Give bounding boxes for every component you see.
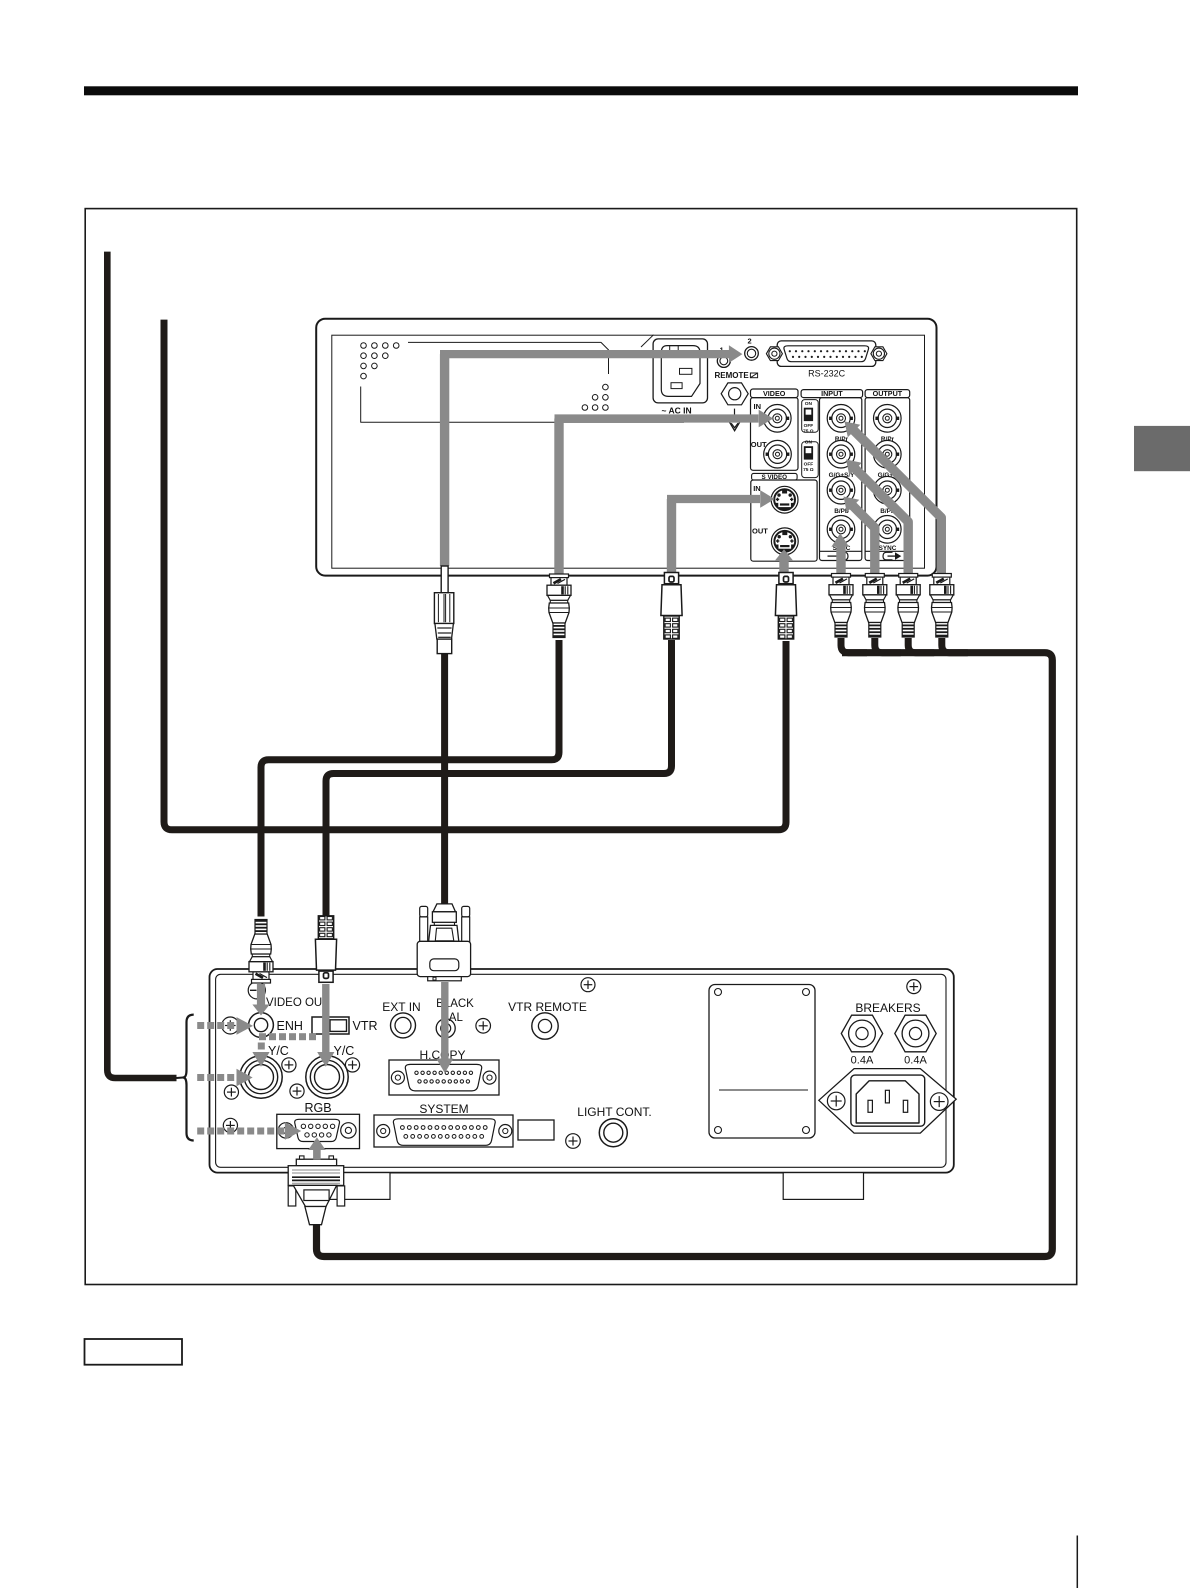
breaker 0.4A right — [895, 1015, 936, 1066]
gray cable to INPUT SYNC — [831, 533, 849, 574]
BNC OUTPUT G/G+S — [874, 440, 902, 479]
connector REMOTE 2 — [745, 337, 759, 361]
S VIDEO plug to S VIDEO OUT — [775, 573, 796, 640]
section VIDEO — [751, 389, 799, 470]
phone plug remote cable — [434, 566, 453, 654]
wire: component plug tails — [841, 638, 968, 653]
gray cable from S VIDEO OUT — [775, 549, 793, 574]
svg-text:OUT: OUT — [752, 527, 768, 536]
svg-text:VIDEO: VIDEO — [763, 389, 786, 398]
gray cable to INPUT G/G+S/Y — [846, 460, 908, 575]
BNC Y/C right — [306, 1044, 355, 1098]
gray cable to INPUT B/Pb — [844, 497, 875, 575]
gray arrow to RGB — [308, 1138, 325, 1160]
svg-text:S VIDEO: S VIDEO — [762, 474, 788, 481]
output icon — [865, 551, 910, 560]
D-sub plug to RGB — [288, 1156, 345, 1225]
monitor rear panel — [316, 319, 936, 576]
ventilation holes middle — [582, 384, 608, 410]
svg-text:0.4A: 0.4A — [851, 1055, 874, 1067]
foot right — [783, 1173, 863, 1200]
ground terminal — [721, 383, 748, 431]
section INPUT — [801, 389, 863, 561]
BNC plug to VIDEO IN — [547, 574, 571, 638]
S VIDEO IN connector — [753, 484, 798, 513]
svg-text:IN: IN — [754, 402, 762, 411]
breaker 0.4A left — [841, 1015, 882, 1066]
svg-text:ON: ON — [805, 401, 813, 407]
BNC Y/C left — [240, 1044, 289, 1098]
blank plate — [518, 1120, 554, 1140]
svg-text:75 Ω: 75 Ω — [803, 467, 814, 473]
dashed arrow ENH to Y/C — [252, 1043, 269, 1067]
blank cover panel — [709, 985, 815, 1139]
S VIDEO OUT connector — [752, 527, 798, 555]
BNC VIDEO IN — [754, 402, 792, 432]
section OUTPUT — [865, 389, 910, 561]
gray cable to S VIDEO IN — [667, 490, 775, 574]
gray cable to VIDEO IN — [555, 410, 774, 575]
gray cable to INPUT R/Pr — [845, 421, 942, 574]
D-sub plug to H.COPY — [417, 904, 470, 981]
input icon — [820, 551, 862, 560]
wire: RGB multicore cable — [317, 653, 1053, 1257]
BNC OUTPUT B/Pb — [874, 476, 902, 515]
svg-text:ENH: ENH — [277, 1019, 303, 1033]
BNC OUTPUT SYNC — [874, 516, 902, 553]
svg-text:RS-232C: RS-232C — [808, 369, 846, 379]
svg-text:VIDEO OUT: VIDEO OUT — [266, 997, 329, 1009]
connector H.COPY — [389, 1048, 499, 1095]
svg-text:~ AC IN: ~ AC IN — [662, 406, 692, 416]
connector RGB — [277, 1101, 360, 1149]
BNC BLACK BAL — [436, 998, 474, 1038]
svg-text:BREAKERS: BREAKERS — [855, 1001, 920, 1015]
gray arrow to H.COPY — [436, 982, 453, 1073]
connector REMOTE 1 — [717, 346, 730, 368]
label BREAKERS — [855, 1001, 920, 1015]
svg-text:SYSTEM: SYSTEM — [419, 1102, 468, 1116]
diagram frame — [85, 209, 1076, 1285]
svg-text:75 Ω: 75 Ω — [803, 429, 814, 435]
svg-text:LIGHT CONT.: LIGHT CONT. — [577, 1105, 651, 1119]
svg-text:2: 2 — [748, 337, 752, 346]
wire: S VIDEO OUT to other equipment — [164, 320, 786, 830]
svg-text:VTR: VTR — [353, 1019, 378, 1033]
label REMOTE — [715, 371, 758, 380]
CCU rear panel — [210, 969, 954, 1173]
dashed arrow to RGB — [197, 1122, 301, 1140]
connector RS-232C — [766, 341, 887, 379]
gray arrow to RGB overlay — [308, 1138, 325, 1160]
gray arrow to ENH — [252, 984, 269, 1016]
svg-text:OUTPUT: OUTPUT — [873, 389, 903, 398]
title rule — [84, 86, 1078, 95]
BNC INPUT R/Pr — [827, 405, 855, 444]
ventilation holes left — [361, 343, 399, 379]
AC inlet AC IN — [653, 339, 707, 403]
svg-text:INPUT: INPUT — [821, 389, 843, 398]
switch 75 ohm A — [803, 401, 814, 434]
BNC EXT IN — [382, 1000, 420, 1038]
S VIDEO plug to S VIDEO IN — [661, 573, 682, 640]
foot left — [310, 1173, 390, 1200]
chapter tab — [1134, 426, 1190, 471]
footer rule — [1076, 1536, 1078, 1588]
dashed arrow to Y/C — [197, 1069, 252, 1087]
svg-text:Y/C: Y/C — [334, 1044, 355, 1058]
svg-text:VTR REMOTE: VTR REMOTE — [508, 1000, 587, 1014]
label AC IN — [662, 406, 692, 416]
BNC INPUT B/Pb — [827, 476, 855, 515]
BNC INPUT SYNC — [827, 516, 855, 553]
dashed link ENH to VTR — [259, 1033, 316, 1040]
wire: camera cable to brace — [107, 252, 183, 1078]
svg-text:OFF: OFF — [804, 462, 814, 468]
svg-text:EXT IN: EXT IN — [382, 1000, 420, 1014]
wire: Y/C to monitor S VIDEO IN — [326, 640, 672, 917]
connector LIGHT CONT — [577, 1105, 651, 1147]
panel screws — [222, 978, 921, 1149]
AC inlet CCU — [819, 1069, 956, 1134]
BNC ENH — [249, 1013, 303, 1038]
BNC plug to ENH — [249, 920, 273, 984]
svg-text:ON: ON — [805, 440, 813, 446]
BNC INPUT G/G+S/Y — [827, 440, 855, 479]
BNC OUTPUT R/Pr — [874, 405, 902, 444]
svg-text:RGB: RGB — [304, 1101, 331, 1115]
svg-text:0.4A: 0.4A — [904, 1055, 927, 1067]
connector SYSTEM — [374, 1102, 513, 1147]
component BNC plugs — [829, 574, 954, 638]
75 ohm switch boxes — [802, 400, 819, 478]
connector VTR REMOTE — [508, 1000, 587, 1039]
svg-text:IN: IN — [753, 484, 761, 493]
svg-text:REMOTE: REMOTE — [715, 371, 750, 380]
switch 75 ohm B — [803, 440, 814, 473]
svg-text:OFF: OFF — [804, 423, 814, 429]
gray arrow to Y/C right — [317, 984, 334, 1067]
wire: VIDEO OUT ENH to monitor VIDEO IN — [261, 640, 559, 917]
output group brace — [183, 1015, 194, 1141]
dashed arrow to ENH — [197, 1017, 253, 1035]
label VIDEO OUT — [266, 997, 329, 1009]
svg-text:Y/C: Y/C — [268, 1044, 289, 1058]
wire: remote cable tail — [441, 652, 448, 905]
gray cable to REMOTE 2 — [440, 345, 742, 566]
S VIDEO plug to Y/C — [315, 916, 336, 983]
note box — [85, 1339, 183, 1365]
svg-text:OUT: OUT — [751, 440, 767, 449]
BNC VIDEO OUT — [751, 440, 792, 468]
section S VIDEO — [751, 473, 817, 561]
switch VTR — [312, 1017, 378, 1034]
